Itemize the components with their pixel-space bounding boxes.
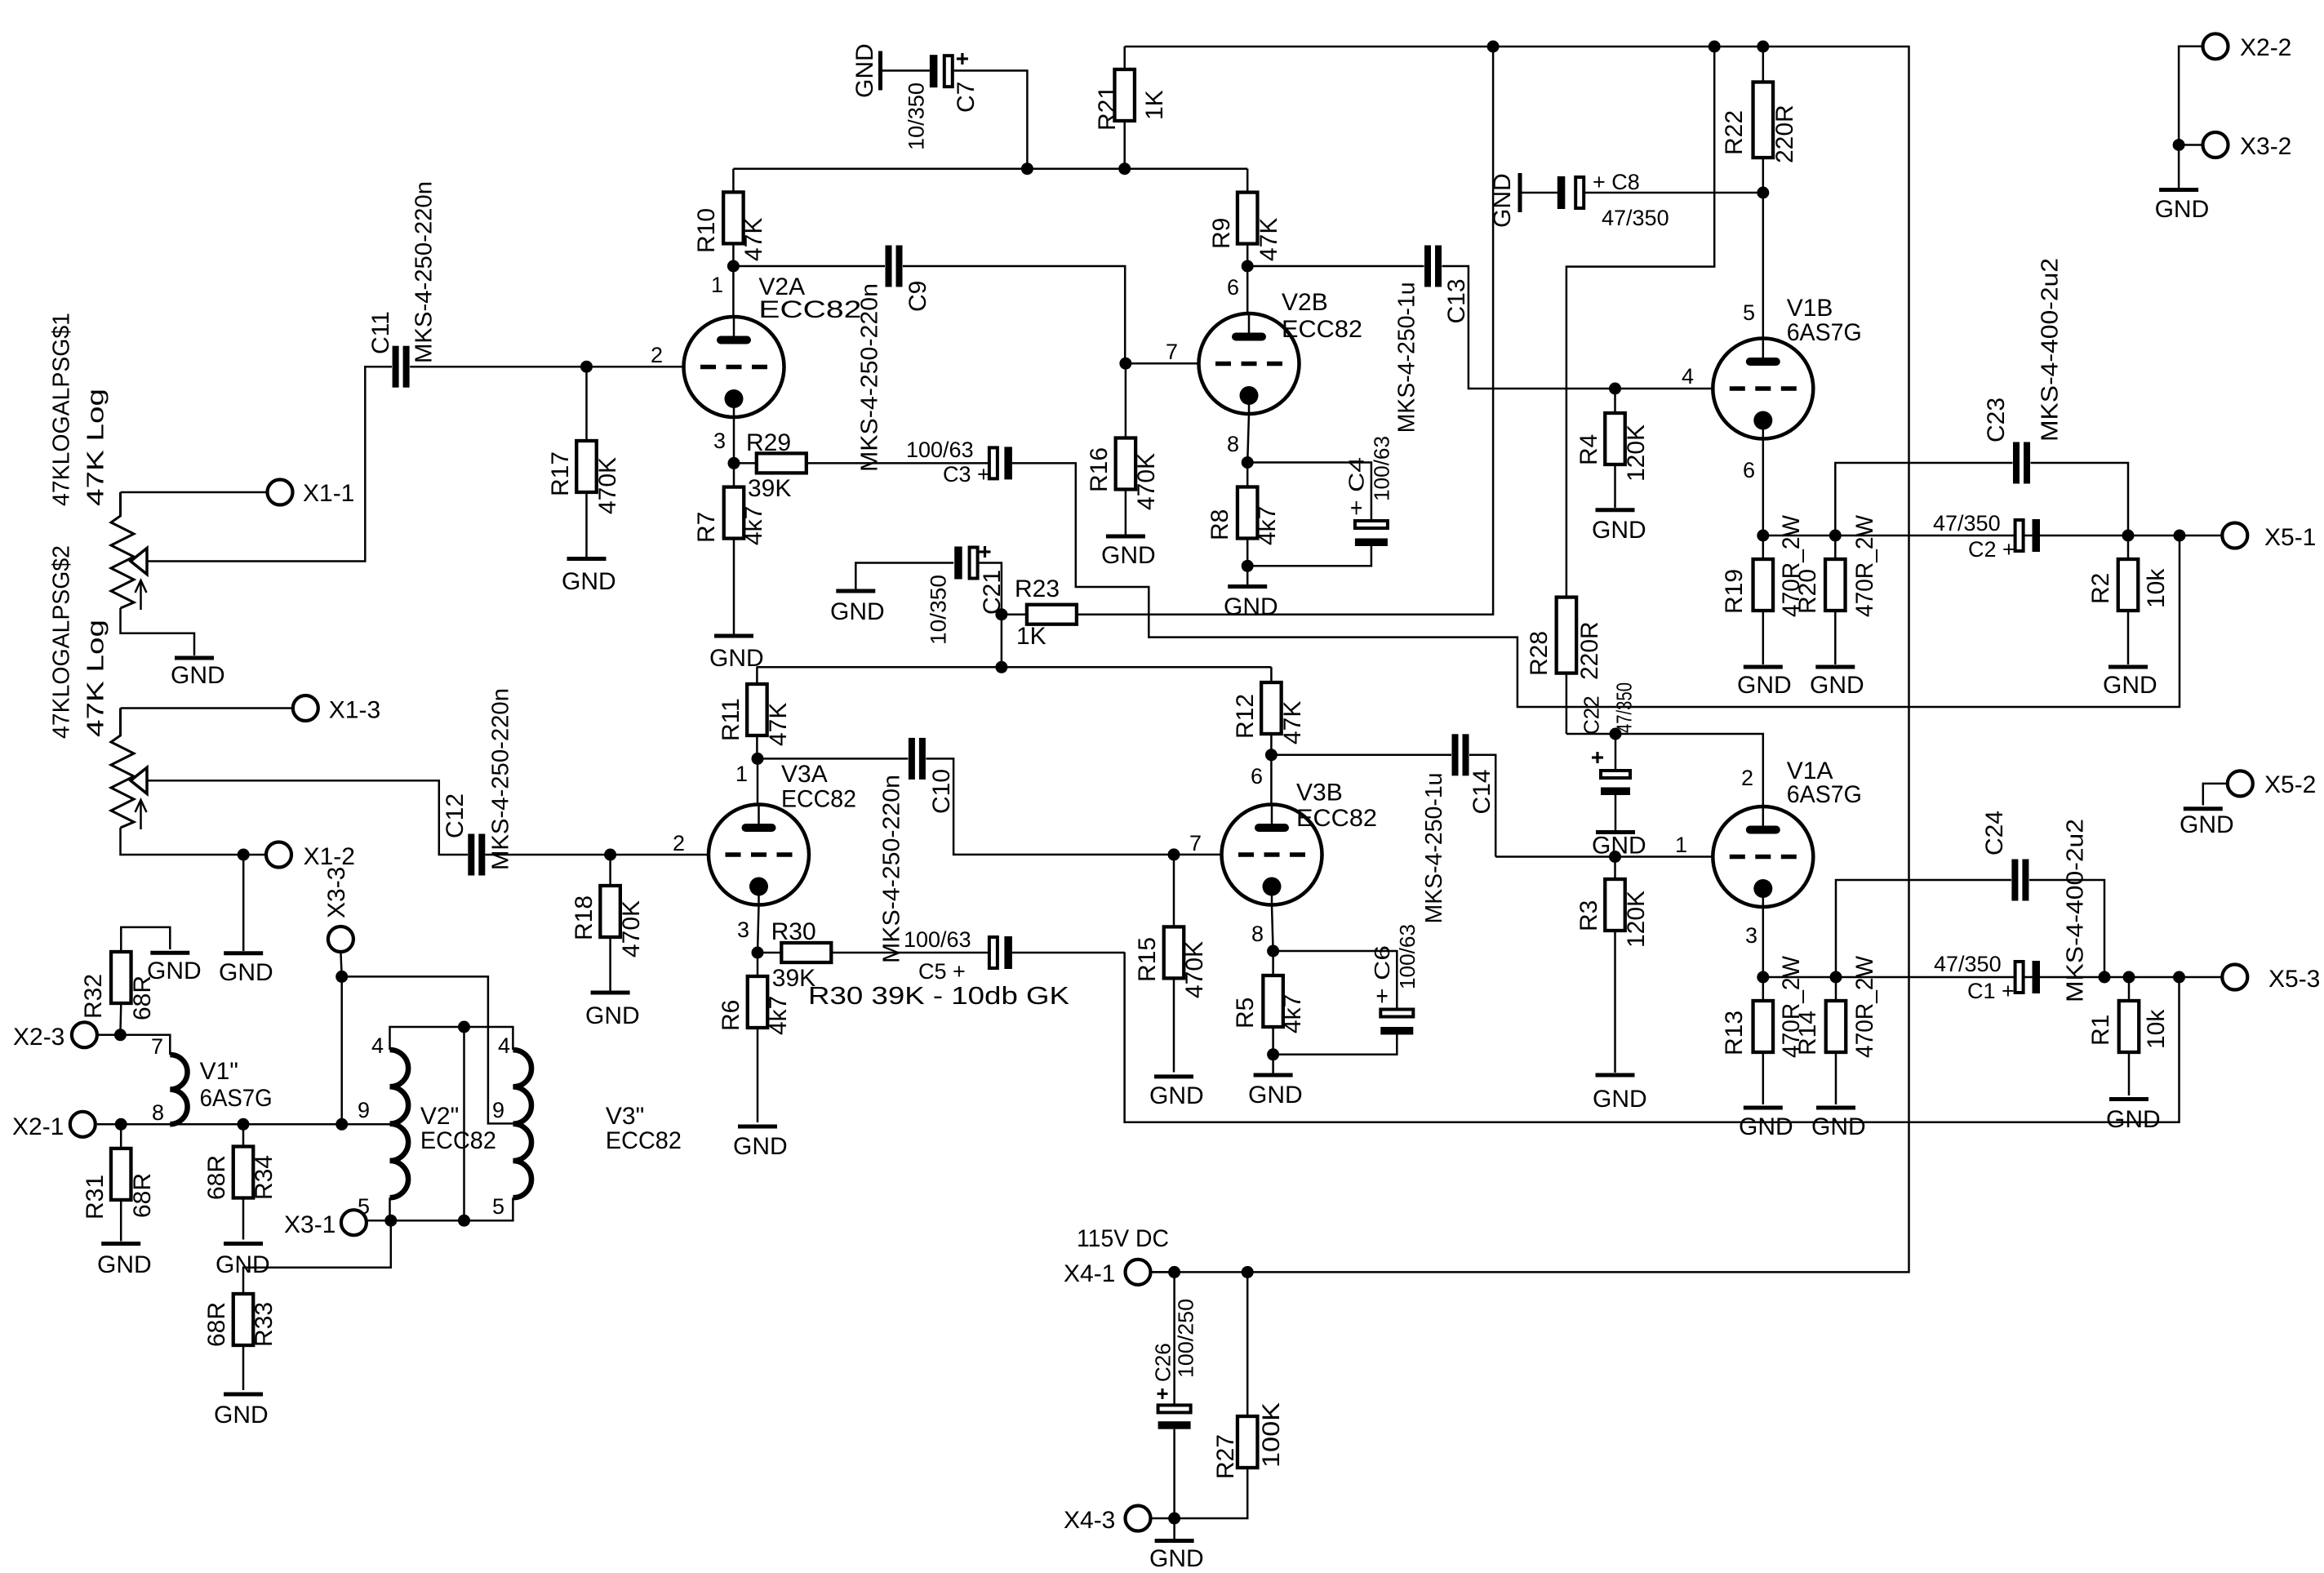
wire V2A cathode [733,417,735,463]
svg-text:GND: GND [1593,1086,1647,1113]
text 115V DC [1077,1225,1169,1252]
junction V3B plate node [1265,749,1278,761]
capacitor C14 MKS-4-250-1u [1421,734,1495,923]
wire C23 to output [2031,463,2129,535]
wire B+ top rail [1125,47,1909,1272]
wire C24 to output [2029,880,2104,977]
resistor R33 68R [203,1294,278,1390]
ground GND under R4 [1592,510,1646,544]
svg-text:X3-1: X3-1 [284,1211,335,1238]
svg-text:C22: C22 [1579,695,1603,735]
svg-text:6: 6 [1227,275,1239,300]
capacitor C7 10/350 [904,53,1028,169]
connector X1-2 [266,842,355,871]
svg-text:V3": V3" [606,1103,644,1130]
svg-text:ECC82: ECC82 [781,786,856,813]
resistor R20 470R_2W [1794,514,1878,664]
junction top rail / R23 feed [1487,41,1500,53]
label pin 3 V3A [737,918,749,942]
connector X1-3 [293,695,380,724]
junction R5 bottom [1267,1048,1279,1060]
resistor R32 68R [80,927,171,1035]
svg-text:C14: C14 [1469,769,1495,814]
svg-text:68R: 68R [203,1302,230,1347]
svg-text:470K: 470K [594,457,621,514]
svg-text:ECC82: ECC82 [1282,316,1362,343]
svg-text:GND: GND [1224,593,1278,620]
svg-text:MKS-4-400-2u2: MKS-4-400-2u2 [2037,258,2063,442]
junction X1-2 ground tap [238,849,250,861]
svg-text:X5-3: X5-3 [2268,966,2320,993]
wire C3 to output node (feedback) [1012,463,2180,707]
wire output X5-3 line [1763,976,2222,979]
svg-text:R17: R17 [547,451,574,496]
svg-text:115V DC: 115V DC [1077,1225,1169,1252]
svg-text:R10: R10 [693,208,720,253]
wire X4-1 stub [1151,1271,1175,1273]
capacitor C4 100/63 [1344,436,1393,546]
svg-text:GND: GND [214,1402,269,1429]
ground GND under R7 [709,636,764,672]
ground GND at C8 [1489,173,1557,228]
svg-text:X1-2: X1-2 [304,843,355,870]
svg-text:470K: 470K [1133,453,1160,510]
svg-text:R12: R12 [1232,694,1259,739]
junction plate load rail [995,661,1007,673]
potentiometer PSG$1 47K Log [48,313,147,610]
ground GND under X1-2 [219,953,273,986]
svg-text:R27: R27 [1212,1434,1239,1479]
junction R34 tap [238,1118,250,1131]
resistor R19 470R_2W [1721,514,1805,664]
connector X5-3 [2222,965,2320,993]
svg-text:+ C4: + C4 [1344,457,1368,516]
label pin 2 V2A [651,343,663,367]
svg-text:7: 7 [1166,340,1178,364]
svg-text:C24: C24 [1981,811,2008,855]
svg-text:R23: R23 [1015,575,1060,602]
ground GND under R31 [97,1244,152,1279]
svg-text:MKS-4-250-220n: MKS-4-250-220n [878,775,904,963]
svg-text:68R: 68R [203,1155,230,1200]
svg-text:R21: R21 [1094,86,1121,131]
wire X3-3 drop [340,952,341,976]
resistor R14 470R_2W [1794,955,1878,1104]
junction sub rail / C7 [1021,162,1033,175]
svg-text:47K Log: 47K Log [82,389,109,506]
wire R23 to B+ rail [1077,47,1493,615]
connector X2-1 [12,1112,96,1140]
ground GND under R16 [1101,536,1156,569]
svg-text:C23: C23 [1983,398,2010,442]
label pin 3 V1A [1745,923,1757,948]
ground GND under R2 [2103,667,2157,699]
svg-text:3: 3 [1745,923,1757,948]
tube V3B ECC82 [1222,780,1378,905]
ground GND under R20 [1810,667,1864,699]
ground GND under R15 [1149,1077,1204,1109]
wire X4-3 stub [1151,1517,1175,1520]
junction V2B plate node [1242,260,1254,273]
svg-text:X1-1: X1-1 [303,480,354,507]
resistor R3 120K [1575,857,1650,1073]
svg-text:6: 6 [1743,458,1755,482]
junction V3A cathode [752,947,764,959]
resistor R30 39K [758,918,831,992]
wire V1B pin5 [1762,193,1765,339]
tube V2B ECC82 [1199,289,1363,414]
svg-text:R29: R29 [746,429,791,456]
junction C21/R23 [995,608,1007,620]
resistor R29 39K [734,429,807,502]
svg-text:10/350: 10/350 [926,575,951,645]
junction X2-1 / R31 [115,1118,127,1131]
junction R8 bottom [1242,560,1254,572]
svg-text:MKS-4-250-1u: MKS-4-250-1u [1393,282,1420,433]
svg-text:X2-2: X2-2 [2240,34,2291,61]
svg-text:X4-1: X4-1 [1064,1260,1115,1287]
svg-text:1: 1 [735,762,748,786]
svg-text:GND: GND [1737,672,1792,699]
svg-text:100K: 100K [1258,1402,1285,1468]
svg-text:10k: 10k [2143,568,2170,608]
junction C22 tap [1610,728,1622,740]
ground GND under R5 [1248,1055,1303,1109]
svg-text:R6: R6 [718,1000,744,1031]
connector X4-3 [1064,1506,1151,1535]
svg-text:7: 7 [151,1034,163,1059]
svg-text:1: 1 [711,273,723,297]
resistor R4 120K [1575,389,1650,508]
svg-text:1K: 1K [1141,90,1168,120]
svg-text:C11: C11 [367,311,394,354]
svg-text:4k7: 4k7 [765,996,792,1035]
label pin 2 V1A [1741,766,1753,790]
svg-text:GND: GND [830,598,885,625]
wire C9 to V2B grid [903,266,1125,363]
svg-text:220R: 220R [1771,104,1798,163]
wire V2 heater pin4 tie [390,1027,513,1050]
wire output X5-1 line [1763,535,2222,537]
svg-text:100/250: 100/250 [1173,1299,1198,1378]
connector X3-2 [2203,132,2292,160]
svg-text:R1: R1 [2087,1015,2114,1046]
connector X3-3 [323,867,353,952]
svg-text:R5: R5 [1232,998,1259,1029]
svg-text:X1-3: X1-3 [329,697,380,724]
wire V3A pin1 [757,758,759,805]
svg-text:X4-3: X4-3 [1064,1507,1115,1534]
svg-text:R20: R20 [1794,569,1821,614]
connector X2-2 [2203,33,2292,61]
wire C10 to V3B grid [926,758,1221,855]
capacitor C23 MKS-4-400-2u2 [1983,258,2064,484]
svg-text:R18: R18 [571,895,598,940]
wire V3B plate to C14 [1271,754,1451,757]
svg-text:470K: 470K [618,900,645,958]
resistor R12 47K [1232,667,1306,755]
svg-text:47K Log: 47K Log [82,620,109,737]
svg-text:8: 8 [1227,432,1239,456]
wire cathode to C4 [1247,463,1371,522]
svg-text:C9: C9 [904,281,931,312]
capacitor C11 MKS-4-250-220n [367,181,438,388]
svg-text:ECC82: ECC82 [1296,805,1377,832]
svg-text:4: 4 [498,1033,510,1058]
junction pin4/5 tie [458,1021,470,1033]
junction V3A grid / R18 [604,849,616,861]
svg-text:GND: GND [1248,1082,1303,1109]
wire V3A cathode [758,905,759,953]
svg-text:1K: 1K [1016,623,1046,650]
junction V2A plate node [727,260,740,273]
wire plate load rail [757,666,1272,669]
junction heater pin9 node [335,1118,348,1131]
svg-text:R33: R33 [251,1302,278,1347]
junction top rail / bootstrap drop [1709,41,1721,53]
ground GND under R8 [1224,566,1278,620]
capacitor C1 47/350 [1934,952,2040,1003]
svg-text:R32: R32 [80,974,107,1019]
wire C23 branch [1835,463,2012,535]
svg-text:MKS-4-400-2u2: MKS-4-400-2u2 [2062,819,2088,1002]
label pin 7 V3B [1189,831,1202,855]
capacitor C26 100/250 [1150,1272,1198,1518]
junction X3-3 branch [335,971,348,983]
junction V2B cathode [1242,456,1254,469]
svg-text:R19: R19 [1721,569,1748,614]
svg-text:7: 7 [1189,831,1202,855]
junction X3-1 [384,1215,397,1227]
ground GND under R1 [2106,1100,2161,1134]
svg-text:GND: GND [585,1002,640,1029]
wire V2A plate to C9 [733,265,885,268]
label pin 5 V1B [1743,300,1755,325]
junction 115V at C26 [1168,1266,1180,1278]
svg-text:ECC82: ECC82 [420,1127,496,1154]
tube V3A ECC82 [709,761,856,905]
capacitor C8 47/350 [1557,170,1763,230]
svg-text:GND: GND [851,43,878,98]
svg-text:V3B: V3B [1296,780,1343,806]
svg-text:47K: 47K [1279,701,1306,744]
resistor R28 220R [1526,598,1603,734]
svg-text:470K: 470K [1181,941,1208,998]
junction output R19 [1757,530,1769,542]
svg-text:470R_2W: 470R_2W [1851,955,1878,1058]
ground GND under R34 [216,1244,270,1279]
svg-text:GND: GND [2180,811,2234,838]
ground GND under R14 [1811,1108,1866,1140]
wire C5 to output (feedback) [1012,952,1125,954]
svg-text:2: 2 [651,343,663,367]
svg-text:470R_2W: 470R_2W [1851,514,1878,617]
label pin 8 V2B [1227,432,1239,456]
wire X2-1 to heater pins 9 [121,1123,389,1126]
svg-text:R3: R3 [1575,900,1602,931]
svg-text:MKS-4-250-220n: MKS-4-250-220n [411,181,437,363]
svg-text:V1B: V1B [1787,295,1833,322]
label pin 2 V3A [673,831,685,855]
label pin 1 V2A [711,273,723,297]
junction V1A grid / R3 [1609,851,1621,863]
text note R30 [808,981,1069,1010]
wire V2B pin6 [1246,266,1249,314]
potentiometer PSG$2 47K Log [48,545,147,829]
svg-text:3: 3 [737,918,749,942]
svg-text:1: 1 [1675,833,1687,857]
ground GND under C22 [1592,795,1646,860]
svg-text:GND: GND [562,568,616,595]
svg-text:C26: C26 [1150,1343,1175,1382]
wire V2B grid [1126,362,1198,365]
wire X3-3 to V2 heater pin9 [340,976,343,1124]
capacitor C10 MKS-4-250-220n [878,738,954,963]
label pin 4 V1B [1682,364,1694,389]
capacitor C9 MKS-4-250-220n [856,246,931,473]
tube V1B 6AS7G [1713,295,1861,439]
svg-text:4k7: 4k7 [1279,994,1306,1033]
resistor R1 10k [2087,977,2170,1095]
wire C4 to ground node [1247,546,1371,566]
wire pot1 wiper to C11 [147,367,392,561]
wire X2-2 down [2179,47,2202,145]
wire heater pins5 line [367,1198,513,1220]
resistor R5 4k7 [1232,951,1306,1055]
label pin 8 V3B [1251,922,1264,946]
wire R30 to C5 [831,952,988,954]
capacitor C24 MKS-4-400-2u2 [1981,811,2089,1002]
ground GND at R32 [147,953,202,984]
junction top rail / R22 [1757,41,1769,53]
svg-text:C7: C7 [953,82,980,113]
junction X4-3 [1168,1513,1180,1525]
svg-text:5: 5 [492,1194,504,1219]
resistor R13 470R_2W [1721,955,1805,1104]
junction V3B grid [1168,848,1180,860]
junction V2B grid [1119,358,1131,370]
label pin 6 V3B [1251,764,1263,789]
svg-text:GND: GND [97,1251,152,1278]
svg-text:X2-1: X2-1 [12,1113,64,1140]
svg-text:6AS7G: 6AS7G [200,1085,273,1112]
tube V3" ECC82 heater [492,1033,682,1219]
svg-text:GND: GND [1149,1082,1204,1109]
svg-text:C2 +: C2 + [1968,537,2015,562]
svg-text:GND: GND [171,662,225,689]
wire C12 to V3A grid [485,854,708,856]
junction X3-2 [2173,139,2185,151]
resistor R15 470K [1134,855,1208,1073]
connector X4-1 [1064,1260,1151,1287]
wire C14 to V1A grid [1469,755,1495,857]
svg-text:6AS7G: 6AS7G [1787,781,1862,808]
svg-text:MKS-4-250-220n: MKS-4-250-220n [487,688,513,870]
label pin 3 V2A [713,429,726,453]
wire pot2 bottom to X1-2 [121,828,267,855]
svg-text:ECC82: ECC82 [758,296,861,323]
connector X1-1 [268,480,355,508]
junction V2A cathode [728,457,740,469]
ground GND under R3 [1593,1075,1647,1113]
resistor R27 100K [1175,1272,1285,1518]
junction V1B grid / R4 [1609,383,1621,395]
connector X5-1 [2222,523,2316,552]
svg-text:47K: 47K [765,703,792,746]
wire R29 to C3 [807,462,989,464]
resistor R6 4k7 [718,953,792,1122]
svg-text:GND: GND [147,958,202,984]
svg-text:R9: R9 [1208,218,1235,249]
capacitor C12 MKS-4-250-220n [442,688,514,876]
svg-text:C13: C13 [1443,278,1470,323]
svg-text:GND: GND [2103,672,2157,699]
connector X2-3 [13,1022,97,1051]
resistor R17 470K [547,367,621,557]
svg-text:47/350: 47/350 [1933,511,2001,535]
junction C8 / R22 / V1B plate [1757,187,1769,199]
svg-text:4: 4 [1682,364,1694,389]
svg-text:100/63: 100/63 [906,438,974,462]
capacitor C21 10/350 [926,546,1006,645]
wire C6 to ground node [1273,1035,1398,1055]
svg-text:V2": V2" [420,1103,459,1130]
resistor R16 470K [1086,363,1160,534]
svg-text:C10: C10 [928,769,955,814]
resistor R34 68R [203,1124,278,1239]
junction V3A plate node [752,753,764,765]
ground GND under R6 [733,1126,788,1160]
svg-text:R31: R31 [82,1175,109,1220]
svg-text:100/63: 100/63 [1369,436,1393,501]
svg-text:X2-3: X2-3 [13,1024,64,1051]
svg-text:C3 +: C3 + [943,462,990,487]
svg-text:47/350: 47/350 [1934,952,2002,976]
svg-text:R22: R22 [1721,110,1748,155]
svg-text:X3-2: X3-2 [2240,133,2291,160]
svg-text:R7: R7 [693,512,720,543]
wire V3A plate to C10 [758,758,908,760]
svg-text:4k7: 4k7 [740,506,767,545]
junction output2 R13 [1757,971,1769,984]
wire pot2 wiper to C12 [147,780,468,855]
wire X1-1 to pot [121,491,268,494]
svg-text:R30 39K - 10db GK: R30 39K - 10db GK [808,981,1069,1010]
wire X3-3 to V3 heater [342,976,513,1123]
svg-text:GND: GND [709,645,764,672]
svg-text:X5-1: X5-1 [2264,524,2316,551]
svg-text:4: 4 [371,1033,384,1058]
ground GND under R17 [562,559,616,596]
svg-text:R13: R13 [1721,1011,1748,1055]
junction sub rail / R21 [1118,162,1131,175]
wire bootstrap B+ to R28 [1566,47,1714,598]
capacitor C22 47/350 [1579,682,1636,795]
svg-text:47K: 47K [740,218,767,261]
wire C24 branch [1836,880,2011,977]
wire V1A grid line [1495,855,1713,858]
wire X3-1 to R33 [243,1220,391,1294]
resistor R18 470K [571,855,645,991]
label pin 7 V2B [1166,340,1178,364]
svg-text:GND: GND [1810,672,1864,699]
svg-text:10/350: 10/350 [904,82,929,150]
resistor R9 47K [1208,169,1282,266]
wire V2B cathode [1247,414,1249,463]
svg-text:100/63: 100/63 [904,927,971,952]
svg-text:GND: GND [1592,517,1646,544]
svg-text:9: 9 [492,1098,504,1122]
